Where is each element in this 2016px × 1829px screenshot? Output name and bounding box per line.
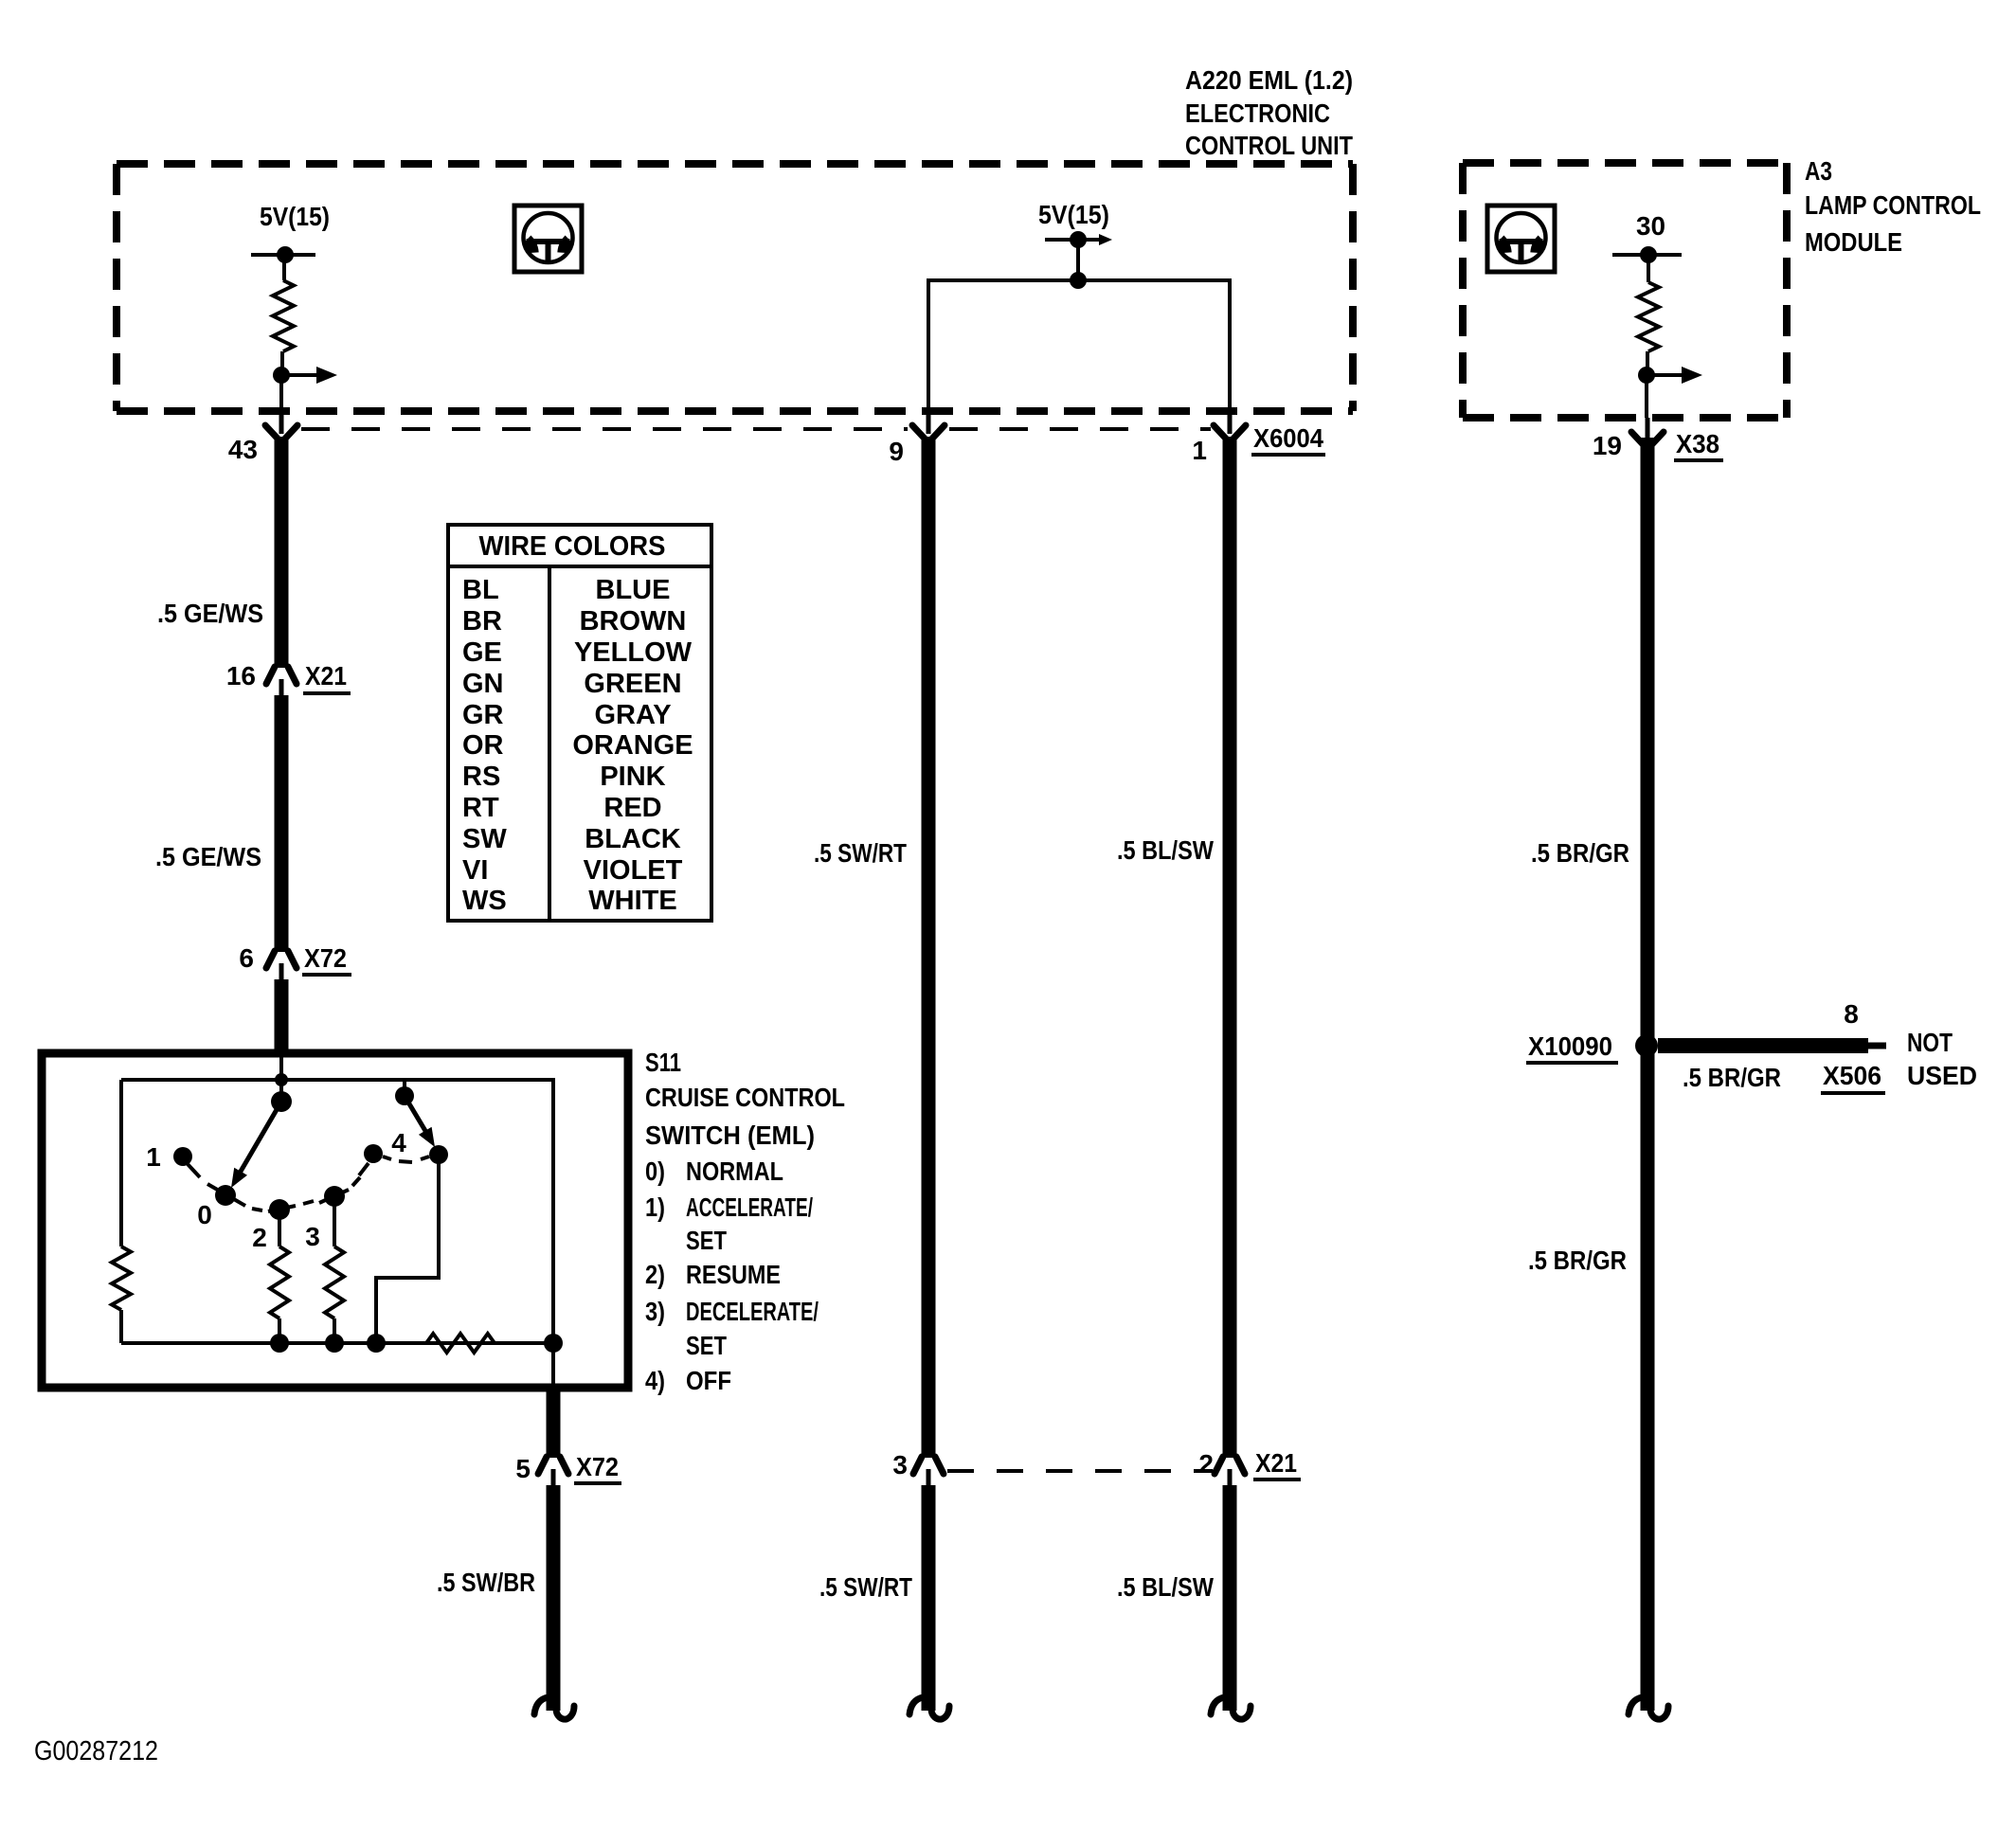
node 5V rail center xyxy=(1045,231,1112,248)
svg-text:19: 19 xyxy=(1593,431,1622,460)
connector X21 pin 16 xyxy=(266,667,297,696)
switch S11 box xyxy=(42,1053,628,1388)
svg-text:6: 6 xyxy=(239,943,254,973)
label S11 title xyxy=(645,1048,845,1150)
wire .5 SW/RT lower xyxy=(922,1485,936,1711)
wiper arm 2 xyxy=(405,1096,435,1147)
label X506 xyxy=(1821,1061,1885,1093)
svg-text:RESUME: RESUME xyxy=(686,1260,781,1289)
svg-text:.5 BR/GR: .5 BR/GR xyxy=(1531,838,1629,868)
svg-text:2): 2) xyxy=(645,1260,665,1289)
svg-text:9: 9 xyxy=(889,437,904,466)
wire .5 BL/SW lower xyxy=(1223,1485,1237,1711)
wire .5 GE/WS lower xyxy=(275,695,289,952)
svg-text:CONTROL UNIT: CONTROL UNIT xyxy=(1185,131,1353,160)
svg-text:2: 2 xyxy=(252,1223,267,1252)
connector pin 43 xyxy=(265,411,297,439)
label pin 16 xyxy=(226,661,256,690)
label pin 1 xyxy=(1192,436,1207,465)
svg-text:3): 3) xyxy=(645,1297,665,1326)
svg-text:NORMAL: NORMAL xyxy=(686,1157,783,1186)
wire S11 to X72 xyxy=(547,1389,561,1458)
svg-text:VI: VI xyxy=(462,855,488,886)
resistor S11 pos3 xyxy=(325,1246,344,1318)
svg-text:BLACK: BLACK xyxy=(585,824,681,854)
node wiper pivot 2 xyxy=(395,1080,414,1105)
node bus 3 xyxy=(325,1334,344,1353)
node 30 rail xyxy=(1612,246,1682,263)
svg-text:.5 BL/SW: .5 BL/SW xyxy=(1117,835,1214,865)
svg-text:5V(15): 5V(15) xyxy=(260,202,330,231)
svg-text:.5 GE/WS: .5 GE/WS xyxy=(155,842,261,871)
label .5 BL/SW lower xyxy=(1117,1572,1214,1602)
svg-text:.5 BR/GR: .5 BR/GR xyxy=(1683,1063,1781,1092)
wire branch X506 xyxy=(1658,1038,1886,1053)
svg-text:BLUE: BLUE xyxy=(596,575,671,605)
svg-text:LAMP CONTROL: LAMP CONTROL xyxy=(1805,190,1981,220)
label pin 5 xyxy=(515,1454,531,1483)
svg-text:BR: BR xyxy=(462,606,502,637)
wire .5 SW/RT upper xyxy=(922,437,936,1458)
svg-text:BL: BL xyxy=(462,575,499,605)
resistor S11 left xyxy=(112,1246,131,1310)
wire .5 BL/SW upper xyxy=(1223,437,1237,1458)
svg-text:A3: A3 xyxy=(1805,156,1832,186)
svg-text:BROWN: BROWN xyxy=(580,606,687,637)
svg-text:MODULE: MODULE xyxy=(1805,227,1902,257)
svg-text:X6004: X6004 xyxy=(1253,423,1323,453)
wire end hook BL/SW xyxy=(1211,1697,1251,1719)
dash arc 4-right xyxy=(383,1157,429,1162)
svg-text:.5 SW/RT: .5 SW/RT xyxy=(814,838,907,868)
label .5 GE/WS upper xyxy=(157,599,263,628)
label .5 GE/WS lower xyxy=(155,842,261,871)
svg-text:OR: OR xyxy=(462,730,504,761)
wire end hook BR/GR xyxy=(1629,1697,1668,1719)
dash arc 0-2 xyxy=(252,1209,262,1210)
connector pin 19 xyxy=(1631,418,1664,445)
steering-wheel icon (A3) xyxy=(1487,206,1555,272)
wiper arm 1 xyxy=(231,1102,281,1188)
label .5 SW/BR xyxy=(437,1568,535,1597)
svg-text:WHITE: WHITE xyxy=(588,886,676,916)
label switch position 1 xyxy=(146,1142,161,1172)
connector X21 pin 3 xyxy=(913,1457,944,1486)
node wiper pivot xyxy=(271,1091,292,1112)
node bus 4 xyxy=(367,1334,386,1353)
node bus out xyxy=(544,1334,563,1353)
contact 0 xyxy=(197,1184,245,1229)
label NOT USED xyxy=(1907,1028,1977,1090)
svg-text:X72: X72 xyxy=(576,1452,619,1481)
wire S11 output drop xyxy=(551,1343,555,1389)
wire contact2 drop xyxy=(278,1210,281,1246)
svg-text:16: 16 xyxy=(226,661,256,690)
label .5 BR/GR upper xyxy=(1531,838,1629,868)
svg-text:ACCELERATE/: ACCELERATE/ xyxy=(686,1192,813,1222)
label pin 9 xyxy=(889,437,904,466)
wire resistor2 to bus xyxy=(278,1318,281,1343)
wire S11 entry xyxy=(279,1053,283,1102)
svg-text:PINK: PINK xyxy=(600,762,665,792)
svg-text:CRUISE CONTROL: CRUISE CONTROL xyxy=(645,1083,845,1112)
wire .5 BR/GR xyxy=(1641,438,1655,1711)
contact 3 xyxy=(305,1186,349,1251)
label X10090 xyxy=(1526,1031,1618,1063)
wire 5V to resistor xyxy=(282,255,286,280)
contact right xyxy=(429,1145,448,1164)
svg-text:ORANGE: ORANGE xyxy=(572,730,693,761)
connector X21 pin 2 xyxy=(1215,1457,1245,1486)
svg-text:4): 4) xyxy=(645,1366,665,1395)
label 5V(15) left xyxy=(260,202,330,231)
svg-text:RS: RS xyxy=(462,762,500,792)
svg-text:GR: GR xyxy=(462,700,504,730)
svg-text:3: 3 xyxy=(892,1450,908,1479)
svg-text:1: 1 xyxy=(146,1142,161,1172)
node T junction center xyxy=(1070,272,1087,289)
label X21 upper xyxy=(303,661,351,693)
svg-text:GE: GE xyxy=(462,637,502,668)
svg-text:USED: USED xyxy=(1907,1061,1977,1090)
connector X72 pin 6 xyxy=(266,951,297,980)
wire contact3 drop xyxy=(333,1196,336,1246)
label X72 upper xyxy=(302,943,351,975)
svg-text:SW: SW xyxy=(462,824,507,854)
label pin 19 xyxy=(1593,431,1622,460)
arrow ECU internal left xyxy=(281,367,337,384)
label A3 module xyxy=(1805,156,1981,257)
svg-text:5V(15): 5V(15) xyxy=(1038,200,1109,229)
svg-text:3: 3 xyxy=(305,1222,320,1251)
steering-wheel icon (ECU) xyxy=(514,206,582,272)
svg-text:GRAY: GRAY xyxy=(594,700,671,730)
svg-text:8: 8 xyxy=(1844,999,1859,1029)
connector pin 9 xyxy=(912,411,945,439)
label pin 43 xyxy=(228,435,258,464)
label pin 2 xyxy=(1198,1449,1214,1479)
svg-text:SET: SET xyxy=(686,1331,727,1360)
svg-text:SWITCH (EML): SWITCH (EML) xyxy=(645,1121,815,1150)
node resistor output A3 xyxy=(1638,367,1655,384)
svg-text:X21: X21 xyxy=(305,661,347,690)
resistor S11 pos2 xyxy=(270,1246,289,1318)
resistor ECU pull-up left xyxy=(273,280,294,351)
label .5 BR/GR lower xyxy=(1528,1246,1627,1275)
wire GE/WS to S11 xyxy=(275,979,289,1053)
wire resistor to node xyxy=(280,351,284,375)
svg-text:YELLOW: YELLOW xyxy=(574,637,693,668)
svg-text:GN: GN xyxy=(462,669,504,699)
wire end hook SW/BR xyxy=(534,1697,574,1719)
wire 30 to resistor xyxy=(1647,255,1650,282)
connector line X6004 dashed xyxy=(301,427,1211,431)
wire distribution bus xyxy=(928,280,1230,411)
svg-text:WS: WS xyxy=(462,886,507,916)
label .5 SW/RT upper xyxy=(814,838,907,868)
svg-text:DECELERATE/: DECELERATE/ xyxy=(686,1297,819,1326)
wire end hook SW/RT xyxy=(909,1697,949,1719)
svg-text:.5 GE/WS: .5 GE/WS xyxy=(157,599,263,628)
contact 4 xyxy=(359,1128,406,1175)
wire node to pin 43 xyxy=(279,375,283,411)
svg-text:30: 30 xyxy=(1636,211,1665,241)
label terminal 30 xyxy=(1636,211,1665,241)
wire node to pin 19 xyxy=(1645,375,1648,418)
svg-text:1): 1) xyxy=(645,1192,665,1222)
svg-text:2: 2 xyxy=(1198,1449,1214,1479)
arrow A3 internal xyxy=(1647,367,1702,384)
module A3 dashed box xyxy=(1463,163,1787,418)
wire contact-right path xyxy=(376,1155,439,1343)
label pin 6 xyxy=(239,943,254,973)
label .5 BL/SW upper xyxy=(1117,835,1214,865)
label 5V(15) center xyxy=(1038,200,1109,229)
svg-text:X10090: X10090 xyxy=(1528,1031,1612,1061)
label X6004 xyxy=(1251,423,1325,455)
wire 5V down center xyxy=(1076,240,1080,280)
label .5 BR/GR branch xyxy=(1683,1063,1781,1092)
node bus 2 xyxy=(270,1334,289,1353)
label A220 ECU xyxy=(1185,65,1353,160)
svg-text:OFF: OFF xyxy=(686,1366,731,1395)
svg-text:.5 BL/SW: .5 BL/SW xyxy=(1117,1572,1214,1602)
svg-text:1: 1 xyxy=(1192,436,1207,465)
diagram number xyxy=(34,1736,158,1766)
svg-text:WIRE COLORS: WIRE COLORS xyxy=(479,531,666,562)
svg-text:X21: X21 xyxy=(1255,1448,1297,1478)
svg-text:X506: X506 xyxy=(1823,1061,1881,1090)
label X21 lower xyxy=(1253,1448,1301,1479)
svg-text:S11: S11 xyxy=(645,1048,681,1077)
connector X72 pin 5 xyxy=(538,1457,568,1486)
node X10090 junction xyxy=(1635,1034,1658,1057)
svg-text:0): 0) xyxy=(645,1157,665,1186)
label X38 xyxy=(1674,429,1723,460)
svg-text:0: 0 xyxy=(197,1200,212,1229)
svg-text:.5 SW/BR: .5 SW/BR xyxy=(437,1568,535,1597)
contact 1 xyxy=(173,1147,200,1177)
label pin 3 xyxy=(892,1450,908,1479)
wire resistor to node A3 xyxy=(1646,351,1649,375)
node 5V rail left xyxy=(251,246,315,263)
svg-text:X72: X72 xyxy=(304,943,347,973)
wire .5 GE/WS upper xyxy=(275,437,289,668)
svg-text:5: 5 xyxy=(515,1454,531,1483)
label S11 positions xyxy=(645,1157,819,1395)
svg-text:.5 SW/RT: .5 SW/RT xyxy=(819,1572,912,1602)
svg-text:X38: X38 xyxy=(1676,429,1719,458)
svg-text:SET: SET xyxy=(686,1226,727,1255)
wire colors legend table xyxy=(448,525,711,921)
wire resistor3 to bus xyxy=(333,1318,336,1343)
dash arc 3-4 xyxy=(352,1177,360,1186)
resistor A3 pull-up xyxy=(1638,282,1659,351)
svg-text:RED: RED xyxy=(603,793,661,823)
module A220 ECU dashed box xyxy=(117,164,1353,411)
svg-text:A220 EML (1.2): A220 EML (1.2) xyxy=(1185,65,1353,95)
connector line X21 dashed xyxy=(947,1469,1213,1473)
svg-text:RT: RT xyxy=(462,793,499,823)
node resistor output left xyxy=(273,367,290,384)
svg-text:4: 4 xyxy=(391,1128,406,1157)
wire .5 SW/BR xyxy=(547,1485,561,1711)
contact 2 xyxy=(252,1199,296,1252)
svg-text:.5 BR/GR: .5 BR/GR xyxy=(1528,1246,1627,1275)
svg-text:ELECTRONIC: ELECTRONIC xyxy=(1185,99,1330,128)
label X72 lower xyxy=(574,1452,621,1483)
label .5 SW/RT lower xyxy=(819,1572,912,1602)
svg-text:NOT: NOT xyxy=(1907,1028,1953,1057)
svg-text:VIOLET: VIOLET xyxy=(584,855,683,886)
S11 inner frame xyxy=(121,1080,553,1343)
connector pin 1 xyxy=(1214,411,1246,439)
label pin 8 xyxy=(1844,999,1859,1029)
node S11 entry junction xyxy=(275,1073,288,1086)
dash arc 2-3 xyxy=(303,1201,314,1204)
svg-text:GREEN: GREEN xyxy=(584,669,681,699)
svg-text:43: 43 xyxy=(228,435,258,464)
resistor S11 series xyxy=(426,1334,495,1353)
svg-text:G00287212: G00287212 xyxy=(34,1736,158,1766)
